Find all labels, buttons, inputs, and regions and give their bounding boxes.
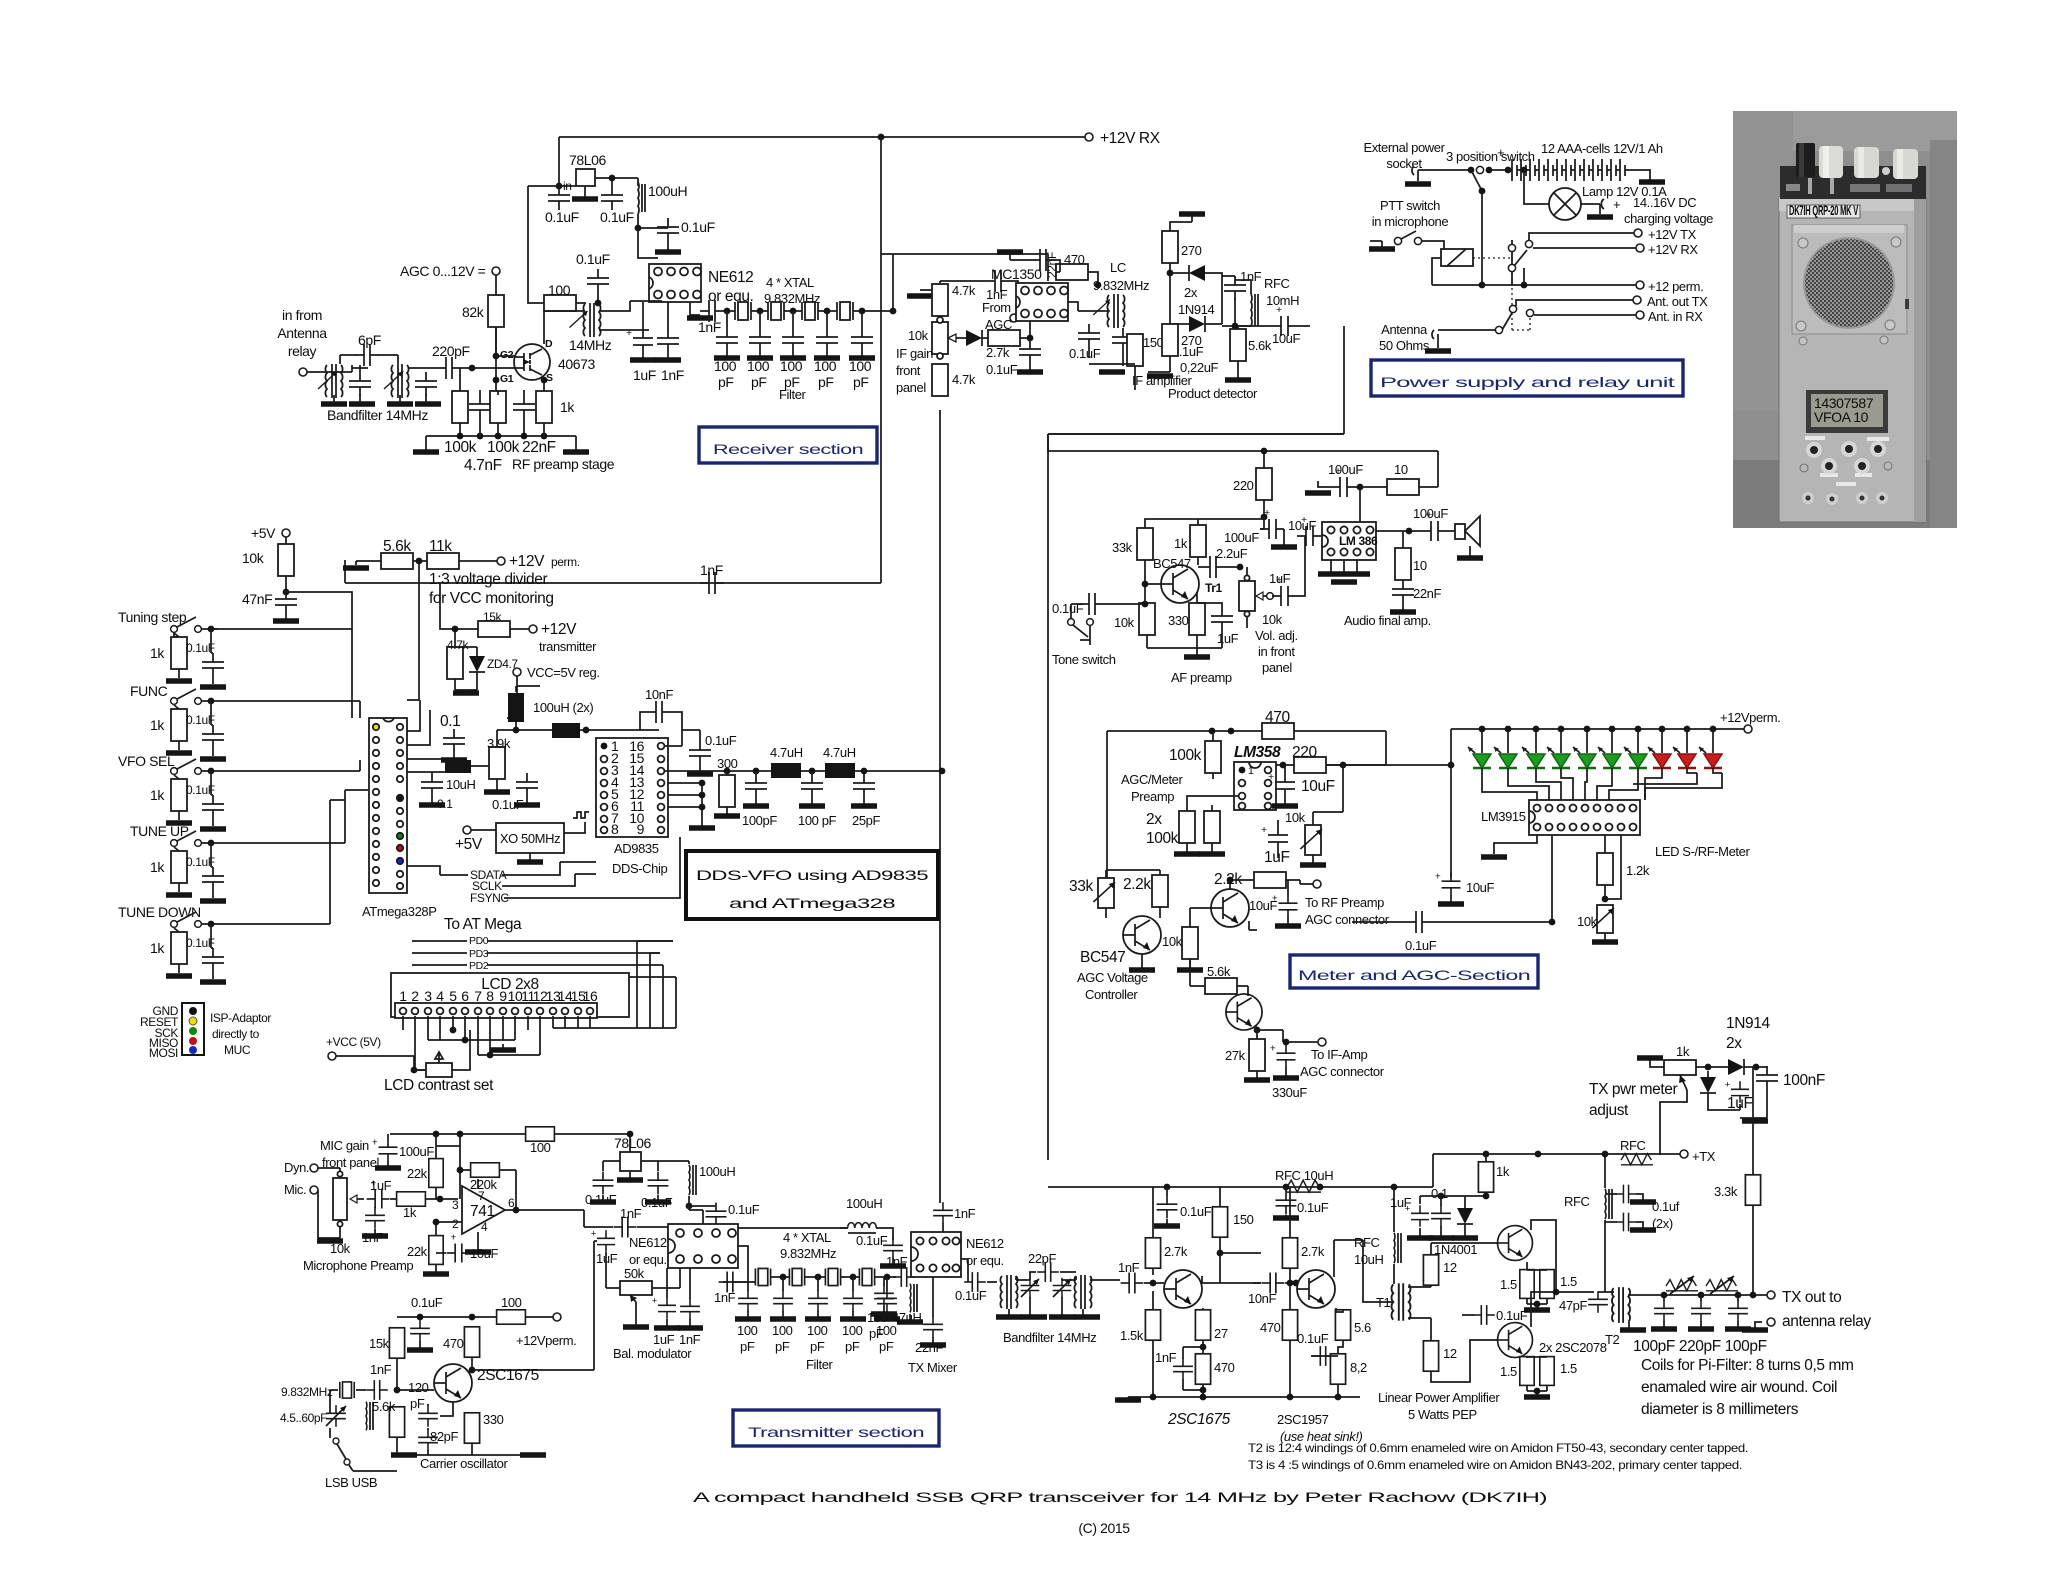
resistor 5.6k (1205, 978, 1237, 994)
svg-text:100: 100 (737, 1323, 758, 1338)
svg-text:1uF: 1uF (1727, 1095, 1753, 1112)
svg-text:10: 10 (1413, 558, 1427, 573)
svg-text:BC547: BC547 (1080, 949, 1125, 966)
emitter node (1254, 1027, 1261, 1034)
svg-text:4.7k: 4.7k (447, 638, 469, 652)
svg-text:LC: LC (1110, 260, 1126, 275)
led 5 green (1586, 729, 1588, 753)
svg-text:100uF: 100uF (399, 1144, 434, 1159)
resistor 100 (544, 295, 576, 311)
wire node (1222, 276, 1251, 326)
resistor 12 lower (1423, 1341, 1438, 1371)
svg-text:5.6k: 5.6k (1207, 964, 1231, 979)
capacitor 1nF (365, 1207, 385, 1229)
capacitor 1uF pot (1272, 574, 1296, 606)
IC LM3915 (1529, 800, 1640, 835)
svg-text:MC1350: MC1350 (991, 266, 1042, 282)
svg-text:270: 270 (1181, 333, 1202, 348)
transmitter box (733, 1410, 939, 1446)
crystal X2 (768, 302, 784, 320)
pot 10k mic gain (333, 1178, 347, 1220)
svg-text:100: 100 (849, 358, 872, 374)
svg-text:33k: 33k (1069, 878, 1093, 895)
svg-text:AGC Voltage: AGC Voltage (1077, 970, 1148, 985)
resistor 1.5k (1145, 1310, 1160, 1340)
wire 78L06 out (595, 178, 638, 186)
small screws beside jacks (1800, 464, 1808, 472)
capacitor 100nF (1756, 1066, 1778, 1090)
resistor 330 (1189, 603, 1205, 635)
resistor 5.6 (1335, 1310, 1350, 1340)
pot 10k meter (1305, 825, 1321, 855)
svg-text:pF: pF (410, 1396, 425, 1411)
crystal 9.832MHz (340, 1382, 354, 1398)
svg-text:150: 150 (1143, 335, 1164, 350)
capacitor 0.1uF filter (657, 218, 679, 242)
svg-text:1nF: 1nF (661, 367, 684, 383)
node G2 (493, 353, 500, 360)
svg-text:1: 1 (399, 988, 407, 1004)
svg-text:10uF: 10uF (1466, 880, 1494, 895)
capacitor tuning L1 (349, 372, 371, 396)
capacitor 0.1uF second (1112, 328, 1134, 352)
svg-text:220: 220 (1233, 478, 1254, 493)
terminal +12V RX (1085, 133, 1093, 141)
ground right (575, 436, 577, 450)
diode agc (960, 330, 988, 346)
svg-text:+12 perm.: +12 perm. (1648, 279, 1703, 294)
LCD bezel (1806, 390, 1888, 433)
svg-text:FUNC: FUNC (130, 683, 168, 699)
svg-text:1nF: 1nF (714, 1290, 736, 1305)
svg-text:10k: 10k (1262, 612, 1283, 627)
terminal AGC (492, 267, 500, 275)
svg-text:100: 100 (714, 358, 737, 374)
resistor 1k source (536, 391, 552, 423)
svg-text:1k: 1k (150, 645, 165, 661)
cap 1uF (1405, 1204, 1429, 1227)
capacitor 1nF (366, 1380, 388, 1400)
resistor 15k (478, 621, 510, 637)
capacitor 6pF (355, 344, 379, 366)
wire switch to battery (1489, 169, 1508, 171)
transistor BC547 (1123, 916, 1161, 954)
cap 10nF interstage (1262, 1273, 1285, 1294)
Ant in RX line (1534, 314, 1636, 316)
svg-text:1.5k: 1.5k (1120, 1328, 1144, 1343)
top rail (1048, 450, 1438, 452)
TX out terminals (1767, 1291, 1775, 1299)
svg-text:AGC connector: AGC connector (1305, 912, 1390, 927)
resistor 470 feedback (1262, 723, 1294, 739)
svg-text:10uF: 10uF (1272, 331, 1300, 346)
inductor 4.7uH black (771, 763, 801, 778)
wire 15k left down (440, 583, 478, 647)
+12V RX rail wire (559, 136, 1085, 138)
svg-text:12: 12 (1443, 1260, 1457, 1275)
resistor 220k feedback (471, 1163, 500, 1177)
staircase wires to LM3915 (1482, 768, 1722, 800)
LO line horizontal mid page (345, 560, 881, 583)
transistor Q2 2SC1957 (1297, 1270, 1335, 1308)
ground 78L06 (584, 186, 586, 197)
resistor 10k pullup (278, 544, 294, 576)
svg-text:9.832MHz: 9.832MHz (1093, 278, 1149, 293)
svg-text:1k: 1k (1676, 1044, 1690, 1059)
crystal 1 (755, 1268, 770, 1285)
svg-text:220: 220 (1292, 744, 1317, 761)
wire mod out to filter (723, 1246, 748, 1282)
resistor 4.7k (447, 647, 463, 679)
resistor 22k lower (429, 1236, 443, 1265)
svg-text:1uF: 1uF (1264, 849, 1290, 866)
regulator 78L06 (576, 169, 595, 186)
svg-text:in microphone: in microphone (1372, 214, 1449, 229)
resistor 4.7k upper (932, 284, 948, 316)
enclosing wire from filter to MC1350 (892, 254, 894, 311)
svg-text:AGC/Meter: AGC/Meter (1121, 772, 1183, 787)
svg-text:in: in (563, 179, 572, 193)
wires below (1089, 348, 1135, 390)
svg-text:0.1uF: 0.1uF (545, 209, 579, 225)
capacitor 1nF input (986, 270, 1010, 292)
svg-text:in from: in from (282, 307, 322, 323)
+12V RX line (1512, 240, 1636, 248)
crystal 3 (825, 1268, 840, 1285)
svg-text:TX pwr meter: TX pwr meter (1589, 1081, 1677, 1098)
svg-text:2SC1957: 2SC1957 (1277, 1412, 1329, 1427)
svg-text:33k: 33k (1112, 540, 1133, 555)
transistor BC547 Tr1 (1161, 565, 1199, 603)
svg-text:100: 100 (530, 1140, 551, 1155)
wire transformer to NE612 (599, 301, 662, 330)
IC MC1350 (1016, 283, 1068, 321)
resistor 12 upper (1423, 1255, 1438, 1285)
charging connector (1581, 199, 1604, 209)
svg-text:RFC: RFC (1264, 276, 1290, 291)
pin numbers (399, 988, 598, 1004)
ground L2 (387, 403, 413, 405)
svg-text:10k: 10k (908, 328, 929, 343)
T1 transformer (1392, 1283, 1411, 1320)
svg-text:2x: 2x (1726, 1035, 1742, 1052)
svg-text:10uH: 10uH (1354, 1252, 1383, 1267)
svg-text:1nF: 1nF (954, 1206, 976, 1221)
capacitor 0.1 small (421, 773, 443, 797)
svg-text:PD2: PD2 (469, 960, 489, 972)
svg-text:0.1uF: 0.1uF (1297, 1331, 1329, 1346)
svg-text:directly to: directly to (212, 1027, 260, 1041)
svg-text:Filter: Filter (779, 387, 807, 402)
svg-text:in front: in front (1258, 644, 1295, 659)
svg-text:100: 100 (772, 1323, 793, 1338)
resistor 11k (427, 553, 459, 569)
svg-text:+5V: +5V (251, 525, 276, 541)
diode vertical (1700, 1071, 1716, 1099)
svg-text:pF: pF (869, 1326, 884, 1341)
svg-text:front: front (896, 363, 921, 378)
wires (1145, 574, 1222, 655)
bottom bus wire (426, 435, 576, 437)
+12V TX line (1529, 233, 1634, 240)
tone switch (1068, 619, 1075, 626)
terminal antenna input (299, 368, 307, 376)
capacitor 120pF (418, 1405, 438, 1427)
svg-text:VFOA 10: VFOA 10 (1814, 409, 1869, 425)
svg-text:FSYNC: FSYNC (470, 891, 509, 905)
trimmer 2 (1053, 1278, 1072, 1298)
external socket symbol (1412, 166, 1414, 175)
electrolytic 10uF (1272, 304, 1296, 336)
capacitor 10uF (1272, 893, 1298, 917)
svg-text:Tr1: Tr1 (1205, 581, 1223, 595)
resistor 15k (389, 1328, 404, 1358)
svg-text:1nF: 1nF (679, 1332, 701, 1347)
svg-text:4.7k: 4.7k (952, 283, 976, 298)
svg-text:Preamp: Preamp (1131, 789, 1174, 804)
svg-text:Ant. out TX: Ant. out TX (1647, 294, 1708, 309)
screws lower (1799, 337, 1807, 345)
svg-text:PD0: PD0 (469, 935, 489, 947)
svg-text:DDS-VFO using AD9835: DDS-VFO using AD9835 (696, 867, 929, 883)
pot LCD contrast (426, 1063, 452, 1077)
svg-text:100: 100 (501, 1295, 522, 1310)
cap 0.1uF out (964, 1272, 986, 1292)
svg-text:1nF: 1nF (698, 319, 721, 335)
svg-text:100uF: 100uF (1224, 530, 1259, 545)
electrolytic 1uF (626, 327, 653, 353)
jacks row2 (1821, 458, 1837, 474)
svg-text:and ATmega328: and ATmega328 (729, 895, 896, 911)
transistor PA top (1498, 1226, 1533, 1261)
svg-text:330uF: 330uF (1272, 1085, 1307, 1100)
cap 0.1uF out (706, 1203, 727, 1226)
transformer IF 14MHz (570, 303, 601, 337)
svg-text:4.7nF: 4.7nF (464, 457, 502, 474)
svg-text:To RF Preamp: To RF Preamp (1305, 895, 1384, 910)
svg-text:100uH: 100uH (699, 1164, 735, 1179)
relay coil (1441, 249, 1473, 266)
wire 10uH node (407, 766, 493, 773)
svg-text:Tuning step: Tuning step (118, 609, 187, 625)
svg-text:10k: 10k (1114, 615, 1135, 630)
svg-text:10: 10 (1394, 462, 1408, 477)
svg-text:Audio final amp.: Audio final amp. (1344, 613, 1431, 628)
svg-text:10nF: 10nF (1248, 1291, 1276, 1306)
wire bundle vertical to mcu (330, 701, 368, 924)
svg-text:1:3 voltage divider: 1:3 voltage divider (429, 571, 547, 588)
wire antenna to contact (1438, 329, 1499, 331)
svg-text:22k: 22k (407, 1244, 428, 1259)
svg-text:4: 4 (436, 988, 444, 1004)
IC NE612 RX mixer (649, 264, 701, 302)
svg-text:40673: 40673 (558, 356, 596, 372)
svg-text:100: 100 (780, 358, 803, 374)
transformer L2 bandfilter (384, 364, 409, 398)
svg-text:25pF: 25pF (852, 813, 880, 828)
capacitor 2.2uF (1201, 556, 1225, 578)
svg-text:120: 120 (408, 1380, 429, 1395)
svg-text:antenna relay: antenna relay (1782, 1313, 1871, 1330)
svg-text:0.1uF: 0.1uF (856, 1233, 888, 1248)
capacitor 0.1uF input (548, 186, 570, 210)
electrolytic 1uF (591, 1229, 615, 1252)
resistor 150 (1127, 334, 1143, 366)
transformer L1 bandfilter (318, 364, 343, 398)
radio body (1779, 197, 1926, 522)
grounds under caps (643, 353, 668, 358)
main vertical from 3pos switch (1481, 191, 1483, 285)
regulator 78L06 (620, 1152, 641, 1171)
svg-text:pF: pF (845, 1339, 860, 1354)
svg-text:0.1uF: 0.1uF (576, 251, 610, 267)
svg-text:8: 8 (486, 988, 494, 1004)
svg-text:8,2: 8,2 (1350, 1360, 1367, 1375)
cap 0.1uF left (1157, 1196, 1178, 1219)
PTT switch (1370, 241, 1382, 247)
wires product detector (1148, 326, 1310, 378)
dotted path to ant contacts (1512, 317, 1530, 330)
svg-text:0.1uF: 0.1uF (1405, 938, 1437, 953)
led 3 green (1535, 729, 1537, 753)
svg-text:A compact handheld SSB QRP tra: A compact handheld SSB QRP transceiver f… (693, 1489, 1547, 1505)
wire L2 to 220pF to gate (408, 367, 515, 369)
svg-text:1k: 1k (560, 399, 575, 415)
svg-text:AD9835: AD9835 (614, 841, 659, 856)
svg-text:RF preamp stage: RF preamp stage (512, 456, 615, 472)
wires collector base (1145, 519, 1264, 574)
capacitor 100uF (1260, 507, 1284, 539)
resistor 5.6k (389, 1407, 404, 1437)
zener ZD4.7 (469, 650, 485, 678)
svg-text:0.1: 0.1 (440, 713, 460, 730)
XO 50MHz (496, 823, 564, 853)
transistor PA bottom (1498, 1323, 1533, 1358)
receiver section box (699, 427, 877, 463)
svg-text:15k: 15k (483, 610, 503, 624)
svg-text:Bal. modulator: Bal. modulator (613, 1346, 692, 1361)
svg-text:9: 9 (637, 821, 645, 837)
svg-text:1nF: 1nF (700, 562, 723, 578)
svg-text:100pF 220pF 100pF: 100pF 220pF 100pF (1633, 1338, 1767, 1355)
led 8 red (1661, 729, 1663, 753)
svg-text:1k: 1k (1496, 1164, 1510, 1179)
svg-text:AGC connector: AGC connector (1300, 1064, 1385, 1079)
svg-text:270: 270 (1181, 243, 1202, 258)
filter through wire (724, 310, 893, 312)
ISP adaptor legend (182, 1003, 204, 1055)
svg-text:6: 6 (508, 1196, 515, 1210)
left pin circles (373, 724, 379, 886)
capacitor 1nF (719, 1272, 742, 1293)
svg-text:D: D (545, 338, 553, 350)
svg-text:470: 470 (1260, 1320, 1281, 1335)
coil osc (366, 1402, 373, 1431)
deck small switches (1786, 184, 1800, 191)
svg-text:5: 5 (449, 988, 457, 1004)
ground left stub (920, 290, 945, 296)
wire battery to lamp (1521, 167, 1528, 174)
resistor 100 (497, 1310, 526, 1324)
switch LSB USB (333, 1438, 339, 1444)
svg-text:RFC: RFC (1620, 1138, 1646, 1153)
svg-text:1k: 1k (403, 1205, 417, 1220)
svg-text:100: 100 (842, 1323, 863, 1338)
svg-text:+5V: +5V (455, 836, 483, 853)
left rail down (1450, 729, 1452, 877)
vol pot 10k (1239, 581, 1255, 611)
transistor 2SC1675 osc (434, 1364, 472, 1402)
svg-text:MOSI: MOSI (149, 1046, 178, 1060)
svg-text:+VCC (5V): +VCC (5V) (326, 1035, 381, 1049)
wire socket to switch (1418, 169, 1468, 171)
svg-text:LSB USB: LSB USB (325, 1475, 377, 1490)
crystal 4 (859, 1268, 874, 1285)
diode horizontal (1722, 1059, 1750, 1075)
svg-text:10nF: 10nF (645, 687, 673, 702)
resistor 470 (1195, 1354, 1210, 1384)
svg-text:ISP-Adaptor: ISP-Adaptor (210, 1011, 271, 1025)
resistor 3.9k (489, 747, 505, 779)
resistor 5.6k (1230, 329, 1246, 361)
svg-text:From: From (982, 300, 1011, 315)
wire 100 to rail riser (528, 186, 559, 303)
trimmer 1 (1021, 1278, 1040, 1298)
svg-text:BC547: BC547 (1153, 556, 1191, 571)
svg-text:15k: 15k (369, 1336, 390, 1351)
svg-text:1N914: 1N914 (1178, 302, 1214, 317)
svg-text:12: 12 (1443, 1346, 1457, 1361)
screws speaker panel (1798, 238, 1808, 248)
svg-text:Antenna: Antenna (1381, 322, 1428, 337)
resistor 330 (464, 1413, 479, 1443)
transistor 3 (1226, 994, 1262, 1030)
resistor 27k (1249, 1039, 1265, 1071)
electrolytic 330uF (1270, 1043, 1296, 1067)
capacitor 1nF (657, 329, 679, 353)
resistor 2.7k (988, 330, 1020, 346)
inductor 100uH (2x) vertical black (508, 693, 524, 722)
knob 2 cream (1854, 147, 1879, 178)
svg-text:0,22uF: 0,22uF (1180, 360, 1219, 375)
svg-text:10k: 10k (242, 550, 265, 566)
svg-text:10k: 10k (1285, 810, 1306, 825)
resistor 2.7k (1145, 1238, 1160, 1268)
capacitor 1nF osc in (893, 1267, 915, 1287)
svg-text:+12V: +12V (541, 621, 577, 638)
svg-text:47nF: 47nF (242, 591, 272, 607)
knob black (1796, 143, 1815, 177)
cap 0.1uF middle (1473, 1305, 1495, 1325)
capacitor 1nF (1224, 276, 1246, 300)
svg-text:perm.: perm. (551, 555, 580, 569)
svg-text:2.2k: 2.2k (1123, 876, 1151, 893)
capacitor 10uF out (1268, 771, 1295, 797)
svg-text:To IF-Amp: To IF-Amp (1311, 1047, 1368, 1062)
svg-text:47pF: 47pF (1559, 1298, 1587, 1313)
svg-text:10mH: 10mH (1266, 293, 1299, 308)
svg-text:10k: 10k (1162, 934, 1183, 949)
svg-text:G2: G2 (500, 349, 514, 361)
T2 (1612, 1287, 1630, 1323)
svg-text:100uH (2x): 100uH (2x) (533, 700, 593, 715)
resistor 100k (1205, 741, 1221, 773)
svg-text:+12V RX: +12V RX (1648, 242, 1698, 257)
svg-text:+: + (1613, 197, 1620, 212)
svg-text:0.1uF: 0.1uF (955, 1288, 987, 1303)
inductor 100uH (2x) horizontal black (552, 723, 580, 738)
svg-text:LM3915: LM3915 (1481, 809, 1526, 824)
